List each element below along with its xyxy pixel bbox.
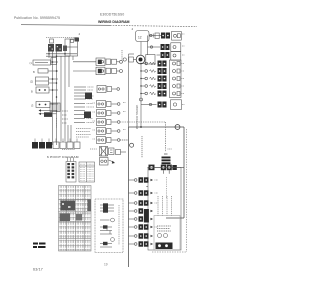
relay board dashed top border [46, 37, 78, 39]
strip 2 labels [87, 104, 95, 123]
wire down right [183, 127, 185, 218]
dark module M2 [84, 112, 91, 119]
6 point terminal block dark cells [32, 142, 38, 149]
connector P2 [96, 67, 105, 75]
enclosure dashed border [152, 129, 187, 252]
legend wire row 6 [100, 233, 112, 235]
svg-text:WIRING DIAGRAM: WIRING DIAGRAM [135, 105, 139, 130]
legend wire row 4 [100, 226, 112, 228]
plug row y=193 [129, 192, 135, 194]
link to bus [121, 151, 127, 153]
terminal box at bus [51, 58, 57, 65]
relay K2 dark block [56, 44, 63, 52]
wires down to 6 point block [67, 125, 69, 142]
plug pair row 1 [161, 33, 165, 39]
dashed tie line [120, 121, 166, 123]
socket row y=93.5 [140, 91, 180, 97]
box edge ticks [146, 179, 148, 181]
svg-text:Publication No. 5995599475: Publication No. 5995599475 [14, 16, 60, 20]
connector C12 [116, 150, 121, 155]
main bus vertical [140, 42, 142, 56]
wire drop 1 [48, 52, 50, 59]
node line across [120, 125, 184, 267]
small table T1 [79, 162, 95, 182]
lower bus [128, 127, 130, 267]
connector J8 [97, 137, 106, 144]
dashed feed [120, 139, 129, 141]
switch S5 [36, 102, 50, 108]
cap label [168, 148, 173, 150]
plug row y=236 [129, 235, 135, 237]
contact block [44, 112, 52, 117]
cap terminal mark [164, 153, 168, 155]
wire drop 4 [60, 56, 62, 141]
control box inner line [65, 46, 78, 48]
wire row 3 [157, 54, 161, 56]
chart column rules [66, 186, 68, 252]
legend wire row 8 [100, 246, 112, 248]
legend wire row 7 [100, 243, 112, 245]
connector J5 [97, 110, 106, 117]
svg-text:B: B [31, 90, 33, 94]
arrow pair [41, 110, 57, 112]
feeder drop [147, 36, 149, 56]
chart heavy rules [59, 199, 92, 201]
plug row y=227 [129, 226, 135, 228]
control module box [154, 196, 180, 250]
connector P1 [96, 58, 105, 66]
heater bar 1 [162, 157, 171, 159]
header rule dashed [110, 25, 197, 26]
socket box row 2 [171, 43, 181, 52]
connector tag labels [93, 103, 127, 140]
terminal marks [50, 39, 54, 43]
S3 wires [49, 78, 59, 80]
bus left vertical [128, 54, 130, 127]
chart dark cell B [88, 200, 92, 212]
heater bar 2 [162, 159, 171, 161]
plug ring A [149, 165, 155, 171]
switch S1 [33, 60, 51, 65]
relay K1 dark block [48, 44, 54, 52]
plug ring B [161, 165, 166, 171]
plug row y=211 [129, 210, 135, 212]
wire drop 2 [52, 52, 54, 146]
module circles [158, 234, 162, 238]
module dark block [156, 243, 173, 250]
wire into box [166, 217, 184, 219]
wire drop 3 [56, 52, 58, 146]
wire remnants [62, 148, 97, 151]
timer motor TM1 [136, 31, 150, 42]
S5 wire [50, 103, 58, 105]
pin labels right of sockets [182, 34, 186, 105]
thermostat TH1 [111, 218, 115, 222]
connector J3 [97, 86, 106, 93]
relay small block [63, 46, 67, 52]
connector J6 [97, 119, 106, 126]
terminal strip 2 [74, 104, 85, 123]
vertical label 2 [141, 136, 143, 158]
switch S3 double [36, 77, 49, 85]
chart dark cell C [60, 214, 71, 222]
svg-text:12: 12 [138, 36, 142, 40]
plug ring C [167, 165, 172, 171]
chart dark cell D [76, 214, 82, 221]
plug row y=244 [129, 243, 135, 245]
left connectors of right diagram [97, 54, 166, 144]
junction wire [148, 166, 185, 168]
svg-text:WIRING DIAGRAM: WIRING DIAGRAM [98, 20, 130, 24]
legend wire row 3 [100, 210, 114, 212]
under-plug tick B [168, 170, 170, 174]
socket row y=86 [140, 83, 180, 89]
node ring N1 [175, 125, 180, 130]
chart dark cell A [61, 201, 76, 211]
S4 wire [49, 89, 58, 91]
legend wire row 5 [100, 230, 112, 232]
arrow out [109, 160, 114, 162]
wire to connector row A [73, 61, 96, 63]
connector C13 [100, 158, 109, 166]
junction row lines [46, 53, 77, 55]
connector C10 [100, 147, 108, 157]
inner dashed lead [166, 177, 168, 198]
lower bus connector rows [129, 177, 154, 246]
svg-text:E30DD75ESS0: E30DD75ESS0 [100, 13, 124, 17]
svg-text:19: 19 [104, 263, 108, 267]
cap dashed feed [165, 122, 167, 152]
legend wire row 1 [100, 204, 114, 206]
connector C11 [109, 148, 115, 155]
plug pair row 3 [161, 52, 165, 58]
control box outline [65, 39, 78, 56]
svg-text:63/17: 63/17 [33, 268, 43, 272]
heater bar 3 [162, 162, 171, 164]
block top stubs [35, 139, 77, 143]
connector block CB1 [66, 162, 76, 183]
wire drop 6 [68, 56, 70, 87]
junction dots on bus [52, 61, 58, 112]
right connector rows group [140, 61, 182, 110]
thermostat TH2 [111, 238, 115, 242]
motor M3 [136, 55, 145, 64]
module text rows [157, 226, 171, 231]
chart hatch fill [59, 186, 91, 251]
wire drop 5 [64, 56, 66, 141]
under-plug tick A [162, 170, 164, 174]
capacitor stack [146, 122, 184, 250]
wire row 1 [149, 35, 161, 37]
socket box row 1 [172, 32, 182, 41]
tiny label rows [57, 111, 69, 128]
switch S2 [38, 69, 48, 73]
wire labels lower rows [151, 180, 159, 244]
legend wire row 2 [100, 207, 114, 209]
S2 wire [48, 70, 58, 72]
connector J7 [97, 128, 106, 135]
6 point terminal block open cells [53, 142, 59, 149]
vertical label [118, 205, 120, 245]
socket row y=78.5 [140, 76, 180, 82]
strip 1 labels [88, 87, 95, 99]
wire drop 7 [72, 56, 74, 60]
wire row 2 [148, 46, 161, 48]
plug ring D [172, 165, 176, 170]
motor feed [129, 57, 134, 62]
stubs above block [67, 158, 69, 162]
terminal strip 1 [74, 87, 86, 99]
module outer box [148, 167, 181, 250]
socket row y=104.5 [141, 100, 182, 110]
tall socket box [170, 60, 182, 98]
bus junction ring [140, 98, 143, 101]
socket row y=71 [140, 68, 180, 74]
S1 wire [51, 61, 59, 63]
switch S4 contacts [36, 87, 49, 93]
wire to connector row B [73, 70, 96, 72]
socket row y=63.5 [140, 61, 180, 67]
wire stubs into box [157, 196, 159, 216]
hatched component [50, 103, 60, 112]
dark module M1 [85, 93, 92, 100]
tiny relay contact [75, 38, 80, 42]
tall plug bar [144, 209, 149, 223]
svg-text:B: B [33, 70, 35, 74]
bus elbow ring [130, 143, 134, 147]
plug row y=219 [129, 218, 135, 220]
plug row y=203 [129, 202, 135, 204]
chart outer border [59, 186, 92, 252]
chart row rules [59, 189, 92, 191]
socket box row 3 [171, 52, 181, 61]
bottom-left note [33, 243, 46, 249]
connector J4 [97, 101, 106, 108]
svg-text:(2): (2) [30, 80, 33, 84]
wire node H [129, 126, 185, 128]
plug row y=180 [129, 179, 135, 181]
plug pair row 2 [161, 44, 165, 50]
header rule solid [21, 24, 110, 27]
wire label rows [76, 129, 91, 138]
svg-text:6 POINT DIAGRAM: 6 POINT DIAGRAM [47, 155, 79, 159]
